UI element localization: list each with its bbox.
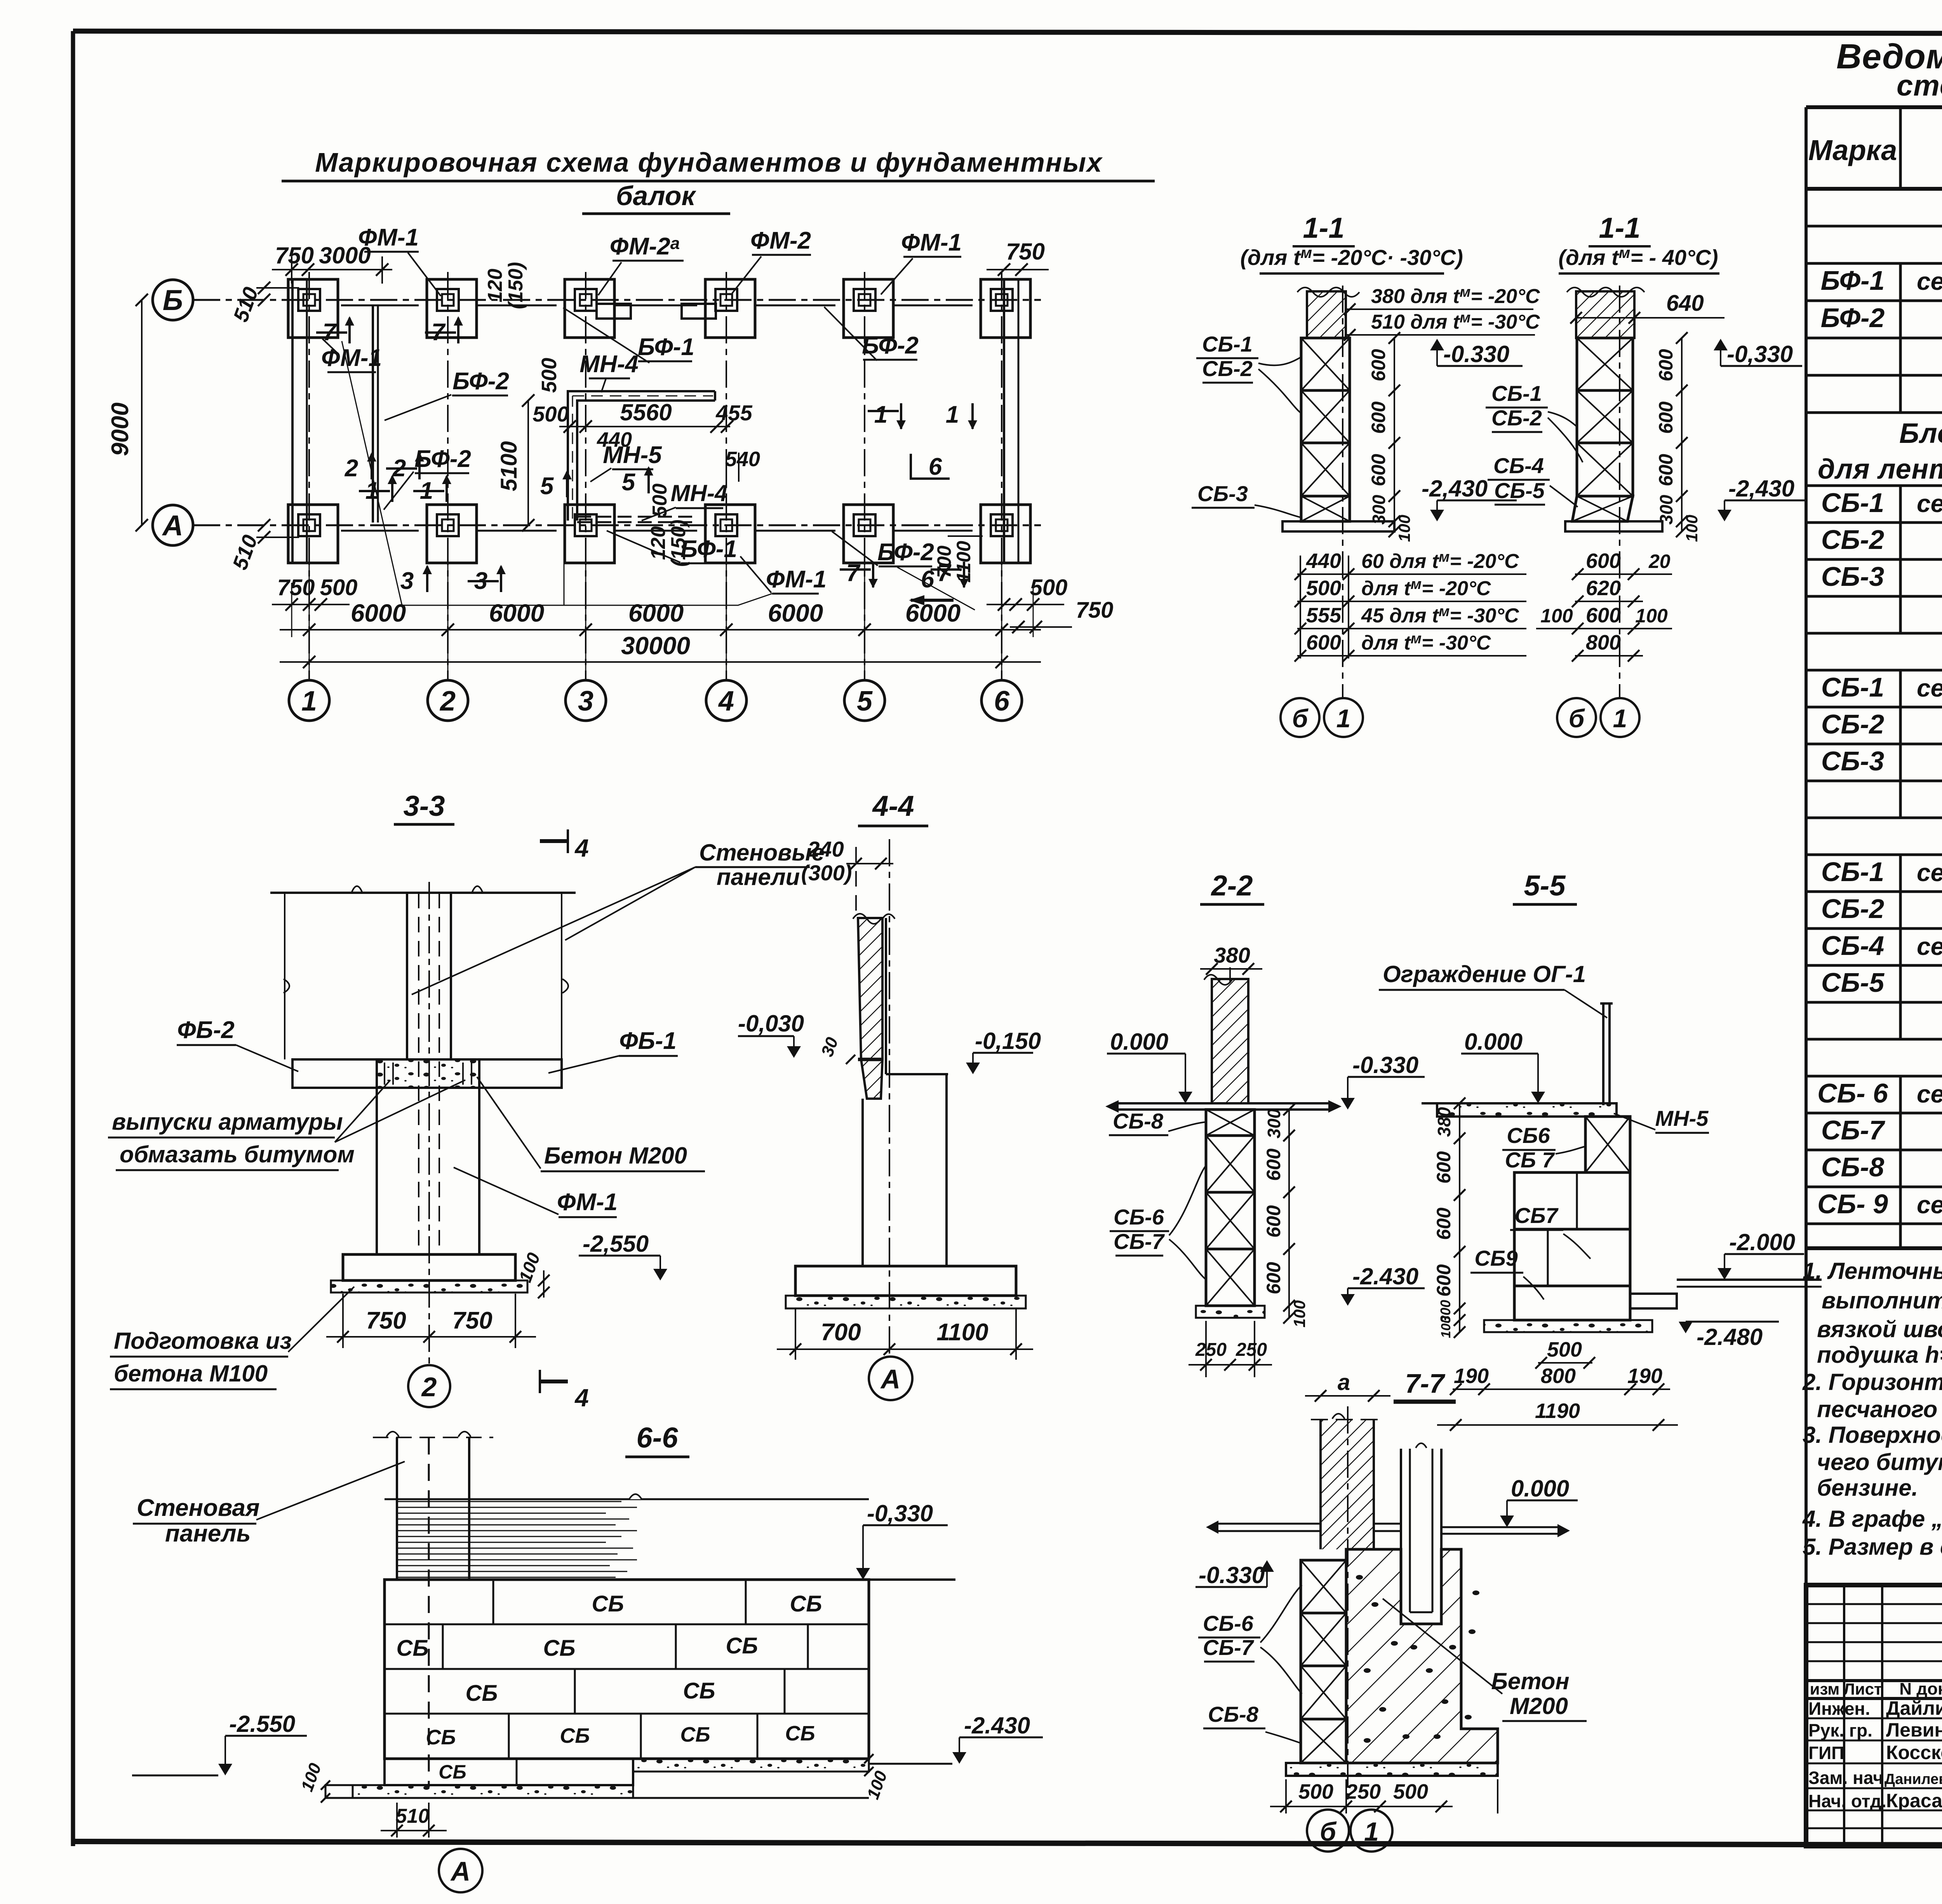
left wall xyxy=(291,279,294,563)
svg-text:серия 1 112 - 1, вып 1: серия 1 112 - 1, вып 1 xyxy=(1917,1191,1942,1219)
svg-text:Рук. гр.: Рук. гр. xyxy=(1808,1720,1872,1740)
svg-text:300: 300 xyxy=(1656,495,1676,524)
svg-text:45 для tм= -30°C: 45 для tм= -30°C xyxy=(1361,603,1519,627)
svg-text:-2.550: -2.550 xyxy=(229,1711,295,1737)
floors xyxy=(1218,1523,1321,1525)
grid bubble 2 xyxy=(428,680,468,721)
sheet frame xyxy=(71,31,75,1846)
svg-text:240: 240 xyxy=(807,837,844,861)
svg-text:500: 500 xyxy=(649,484,671,517)
right dim line xyxy=(1394,338,1395,531)
svg-text:изм: изм xyxy=(1810,1680,1840,1698)
svg-text:Данилевский: Данилевский xyxy=(1885,1771,1942,1787)
svg-text:750: 750 xyxy=(366,1307,406,1334)
svg-text:510: 510 xyxy=(396,1805,430,1827)
svg-text:250: 250 xyxy=(1345,1780,1381,1803)
svg-text:-0.330: -0.330 xyxy=(1443,341,1509,367)
svg-text:-0.330: -0.330 xyxy=(1199,1562,1265,1588)
svg-text:2: 2 xyxy=(439,686,456,717)
svg-text:30000: 30000 xyxy=(621,632,690,660)
svg-text:3-3: 3-3 xyxy=(404,790,445,822)
svg-text:600: 600 xyxy=(1433,1264,1455,1297)
СБ blocks row2 xyxy=(442,1624,444,1669)
svg-text:СБ-8: СБ-8 xyxy=(1821,1152,1884,1182)
svg-text:ГИП: ГИП xyxy=(1808,1743,1844,1763)
svg-text:СБ 7: СБ 7 xyxy=(1505,1148,1556,1172)
svg-text:7-7: 7-7 xyxy=(1405,1368,1445,1399)
level mark -2.000 xyxy=(1718,1268,1731,1280)
column axis 5 xyxy=(864,272,865,680)
svg-text:М200: М200 xyxy=(1510,1693,1568,1719)
svg-text:1. Ленточные фундаменты под: 1. Ленточные фундаменты под стены и подп… xyxy=(1803,1258,1942,1284)
svg-text:510 для tм= -30°C: 510 для tм= -30°C xyxy=(1371,310,1540,333)
svg-text:СБ-6: СБ-6 xyxy=(1203,1611,1254,1636)
dim 510 left top xyxy=(256,287,299,289)
right dim line xyxy=(1681,338,1683,531)
svg-text:СБ-6: СБ-6 xyxy=(1114,1205,1164,1229)
svg-text:a: a xyxy=(1338,1370,1350,1395)
brick wall above xyxy=(1576,291,1634,338)
svg-text:СБ-2: СБ-2 xyxy=(1821,524,1884,555)
footing ФМ row А col 5 xyxy=(844,505,893,563)
svg-text:500: 500 xyxy=(1306,577,1341,600)
svg-text:выполнить из бетонных сплошн: выполнить из бетонных сплошных блоков с … xyxy=(1822,1287,1942,1313)
svg-text:20: 20 xyxy=(1648,550,1671,572)
svg-text:800: 800 xyxy=(1586,631,1621,654)
svg-text:6: 6 xyxy=(921,566,934,593)
svg-text:СБ: СБ xyxy=(680,1723,710,1746)
footing ФМ row А col 6 xyxy=(981,505,1030,563)
channel МН-4 xyxy=(568,391,715,521)
dim 750 750 xyxy=(342,1294,344,1348)
dim row 6000 xyxy=(280,629,1041,631)
svg-text:600: 600 xyxy=(1368,401,1389,434)
wall panel xyxy=(406,893,408,1059)
svg-text:1: 1 xyxy=(874,401,887,428)
svg-text:ФМ-2а: ФМ-2а xyxy=(610,233,680,260)
svg-text:БФ-2: БФ-2 xyxy=(452,368,509,395)
svg-text:6-6: 6-6 xyxy=(637,1421,679,1454)
level mark -2,430 xyxy=(1430,510,1444,521)
svg-text:1: 1 xyxy=(1613,704,1627,733)
svg-text:СБ-7: СБ-7 xyxy=(1821,1115,1885,1145)
svg-text:серия 1.415-1 , вып 1: серия 1.415-1 , вып 1 xyxy=(1917,267,1942,295)
svg-text:СБ: СБ xyxy=(683,1678,715,1704)
svg-text:СБ-1: СБ-1 xyxy=(1202,332,1253,356)
svg-text:100: 100 xyxy=(1683,515,1701,542)
footing ФМ row Б col 2 xyxy=(427,279,477,338)
svg-text:серия 1.116 - 1, вып. 1: серия 1.116 - 1, вып. 1 xyxy=(1917,490,1942,517)
footing xyxy=(795,1266,1016,1296)
svg-text:выпуски арматуры: выпуски арматуры xyxy=(112,1109,343,1135)
svg-text:СБ: СБ xyxy=(726,1633,758,1658)
footing ФМ row А col 4 xyxy=(705,505,755,563)
svg-text:190: 190 xyxy=(1627,1364,1662,1388)
column ФМ-1 xyxy=(376,1088,378,1254)
svg-text:600: 600 xyxy=(1368,454,1389,486)
grid bubble 3 xyxy=(566,680,606,721)
svg-text:4-4: 4-4 xyxy=(872,790,914,822)
svg-text:Левина: Левина xyxy=(1886,1719,1942,1741)
speckles inside concrete xyxy=(1356,1575,1363,1580)
svg-text:б: б xyxy=(1320,1817,1337,1847)
svg-text:-0,330: -0,330 xyxy=(867,1500,933,1526)
svg-text:БФ-1: БФ-1 xyxy=(1821,265,1885,296)
svg-text:4: 4 xyxy=(718,686,734,717)
svg-text:380: 380 xyxy=(1434,1107,1454,1137)
svg-text:9000: 9000 xyxy=(107,402,134,456)
svg-text:Бетон: Бетон xyxy=(1491,1668,1569,1694)
level mark -2.480 xyxy=(1686,1321,1779,1323)
wall panel verticals xyxy=(396,1437,398,1580)
svg-text:Инжен.: Инжен. xyxy=(1808,1698,1870,1719)
svg-text:серия 1.116 - 1, вып. 1: серия 1.116 - 1, вып. 1 xyxy=(1917,1080,1942,1108)
svg-text:СБ: СБ xyxy=(426,1726,456,1749)
svg-text:СБ-8: СБ-8 xyxy=(1113,1109,1164,1133)
svg-text:500: 500 xyxy=(1393,1780,1428,1803)
footing slab xyxy=(1282,521,1394,531)
svg-text:500: 500 xyxy=(1030,575,1068,600)
bubbles б 1 xyxy=(1281,698,1319,737)
dim 100 right of footing xyxy=(543,1270,545,1298)
svg-text:песчаного раствора состава: песчаного раствора состава 1:2 толщиной … xyxy=(1817,1396,1942,1422)
footing xyxy=(343,1254,515,1280)
svg-text:СБ-2: СБ-2 xyxy=(1821,894,1884,924)
svg-text:стеновых блоков: стеновых блоков xyxy=(1897,69,1942,102)
footing ФМ row Б col 6 xyxy=(981,279,1030,338)
svg-text:(для tм= - 40°C): (для tм= - 40°C) xyxy=(1558,244,1718,270)
masonry field xyxy=(385,1580,869,1759)
svg-text:СБ-5: СБ-5 xyxy=(1821,967,1885,998)
svg-text:ФМ-1: ФМ-1 xyxy=(358,224,419,251)
footing ФМ row Б col 3 xyxy=(565,279,614,338)
svg-text:СБ-4: СБ-4 xyxy=(1821,930,1884,961)
bottom dims 500 250 500 xyxy=(1285,1779,1287,1813)
right step + ground xyxy=(1630,1294,1677,1308)
svg-text:0.000: 0.000 xyxy=(1511,1475,1569,1502)
svg-text:Подготовка из: Подготовка из xyxy=(114,1328,292,1354)
svg-text:1190: 1190 xyxy=(1535,1399,1580,1423)
block stack xyxy=(1301,1560,1346,1613)
svg-text:вязкой швов, на цементном ра: вязкой швов, на цементном растворе м-50.… xyxy=(1817,1316,1942,1342)
column axis 2 xyxy=(447,272,449,680)
right slab edge xyxy=(885,918,887,1074)
svg-text:600: 600 xyxy=(1655,454,1677,486)
divider line between drawing field and notes/table column xyxy=(1805,107,1808,1846)
level mark -0.330 xyxy=(1430,339,1444,350)
svg-text:Косско: Косско xyxy=(1886,1742,1942,1763)
brick wall above xyxy=(1307,291,1346,338)
footing ФМ row Б col 5 xyxy=(844,279,893,338)
svg-text:5100: 5100 xyxy=(496,441,522,491)
bubble А xyxy=(439,1849,482,1892)
svg-text:панели: панели xyxy=(717,864,800,890)
svg-text:6: 6 xyxy=(929,453,942,480)
svg-text:500: 500 xyxy=(1298,1780,1333,1803)
svg-text:СБ6: СБ6 xyxy=(1507,1123,1550,1148)
svg-text:6000: 6000 xyxy=(351,599,406,627)
svg-text:1: 1 xyxy=(1364,1817,1379,1847)
svg-text:СБ9: СБ9 xyxy=(1474,1246,1517,1270)
svg-text:серия 1 116 - 1, вып. 1: серия 1 116 - 1, вып. 1 xyxy=(1917,674,1942,702)
level mark -0,150 xyxy=(966,1063,980,1074)
svg-text:30: 30 xyxy=(818,1035,842,1059)
svg-text:510: 510 xyxy=(228,532,262,573)
svg-text:N докум.: N докум. xyxy=(1899,1679,1942,1698)
svg-text:540: 540 xyxy=(725,448,760,471)
svg-text:250: 250 xyxy=(1236,1340,1267,1360)
dim 750 top-right xyxy=(987,269,1049,270)
svg-text:2-2: 2-2 xyxy=(1211,869,1253,902)
svg-text:300: 300 xyxy=(1264,1108,1284,1138)
svg-text:СБ: СБ xyxy=(790,1591,822,1617)
svg-text:серия 1.116 - 1 , вып. 1: серия 1.116 - 1 , вып. 1 xyxy=(1917,859,1942,887)
block stack xyxy=(1301,338,1350,390)
level mark -2,430 xyxy=(1718,510,1731,521)
svg-text:СБ- 9: СБ- 9 xyxy=(1817,1189,1888,1219)
side squiggles xyxy=(284,979,568,993)
svg-text:чего битума по огрунтовке: чего битума по огрунтовке из битума, рас… xyxy=(1817,1449,1942,1475)
СБ blocks row3 xyxy=(574,1669,576,1714)
svg-text:-2,430: -2,430 xyxy=(1728,476,1794,502)
svg-text:5. Размер в скобках дан д: 5. Размер в скобках дан для t = -30°C , … xyxy=(1803,1534,1942,1560)
svg-text:6000: 6000 xyxy=(905,599,961,627)
svg-text:МН-5: МН-5 xyxy=(603,442,662,469)
footing ФМ row Б col 1 xyxy=(288,279,338,338)
svg-text:б: б xyxy=(1292,704,1309,733)
svg-text:5: 5 xyxy=(857,686,873,717)
svg-text:Маркировочная схема фундамен: Маркировочная схема фундаментов и фундам… xyxy=(315,147,1103,178)
level mark 0.000 xyxy=(1178,1092,1192,1103)
top lines of masonry xyxy=(385,1498,869,1500)
axis А xyxy=(193,524,1041,526)
СБ blocks row4 xyxy=(508,1714,510,1759)
svg-text:для ленточных фундаментов:: для ленточных фундаментов: xyxy=(1818,454,1942,485)
svg-text:-2,550: -2,550 xyxy=(583,1231,649,1257)
svg-text:ФМ-1: ФМ-1 xyxy=(557,1189,618,1216)
svg-text:балок: балок xyxy=(616,181,697,211)
grid bubble 5 xyxy=(844,680,885,721)
svg-text:600: 600 xyxy=(1586,549,1621,573)
svg-text:750: 750 xyxy=(275,242,314,268)
svg-text:ФМ-2: ФМ-2 xyxy=(750,227,811,254)
svg-text:Красавин: Красавин xyxy=(1886,1790,1942,1812)
svg-text:620: 620 xyxy=(1586,577,1621,600)
footing ФМ row А col 3 xyxy=(565,505,614,563)
svg-text:ФБ-1: ФБ-1 xyxy=(619,1028,676,1054)
svg-text:СБ7: СБ7 xyxy=(1514,1203,1559,1228)
masonry wall stepped xyxy=(1585,1117,1630,1172)
level mark 0.000 xyxy=(1500,1516,1514,1527)
floor line xyxy=(270,892,576,894)
svg-text:0.000: 0.000 xyxy=(1464,1029,1523,1055)
svg-text:3. Поверхности фундаментов о: 3. Поверхности фундаментов обмазать двум… xyxy=(1803,1422,1942,1448)
bubbles б 1 xyxy=(1307,1810,1349,1852)
dim 100 left xyxy=(321,1780,330,1790)
svg-text:БФ-2: БФ-2 xyxy=(414,446,471,472)
svg-text:-0,330: -0,330 xyxy=(1727,341,1793,367)
svg-text:700: 700 xyxy=(821,1319,861,1346)
svg-text:100: 100 xyxy=(1540,605,1573,627)
footing slab xyxy=(1286,1763,1498,1776)
svg-text:5: 5 xyxy=(622,469,636,496)
svg-text:СБ-3: СБ-3 xyxy=(1197,481,1248,506)
svg-text:СБ- 6: СБ- 6 xyxy=(1817,1078,1888,1108)
svg-text:6000: 6000 xyxy=(628,599,684,627)
svg-text:ФБ-2: ФБ-2 xyxy=(177,1017,234,1043)
axis circle Б xyxy=(153,280,193,320)
svg-text:100: 100 xyxy=(1395,515,1413,542)
svg-text:555: 555 xyxy=(1306,604,1342,627)
svg-text:600: 600 xyxy=(1263,1262,1284,1294)
svg-text:СБ: СБ xyxy=(560,1724,590,1747)
svg-text:МН-4: МН-4 xyxy=(671,480,728,506)
svg-text:300: 300 xyxy=(1369,495,1389,524)
right wall xyxy=(1003,279,1005,563)
trough xyxy=(1400,1449,1402,1624)
svg-text:3: 3 xyxy=(400,568,414,594)
svg-text:СБ-2: СБ-2 xyxy=(1202,356,1253,381)
svg-text:Дайлида: Дайлида xyxy=(1886,1697,1942,1719)
svg-text:640: 640 xyxy=(1666,291,1704,316)
svg-text:1-1: 1-1 xyxy=(1599,212,1641,244)
svg-text:(для tм= -20°C· -30°C): (для tм= -20°C· -30°C) xyxy=(1240,244,1463,270)
svg-text:МН-4: МН-4 xyxy=(579,351,639,378)
dim 750 top-left xyxy=(272,269,392,270)
svg-text:4. В графе „ примечание” ука: 4. В графе „ примечание” указана масса э… xyxy=(1802,1506,1942,1532)
svg-text:МН-5: МН-5 xyxy=(1655,1106,1709,1131)
svg-text:для tм= -20°C: для tм= -20°C xyxy=(1361,576,1491,600)
svg-text:190: 190 xyxy=(1454,1364,1489,1388)
wall brick xyxy=(1212,979,1248,1103)
svg-text:5-5: 5-5 xyxy=(1524,869,1566,902)
leader lines bottom xyxy=(402,594,772,605)
footing ФМ row А col 2 xyxy=(427,505,477,563)
svg-text:БФ-1: БФ-1 xyxy=(638,334,694,361)
beam band ФБ-2 left / ФБ-1 right xyxy=(292,1059,377,1088)
svg-text:100: 100 xyxy=(515,1250,544,1285)
grid bubble 4 xyxy=(706,680,747,721)
svg-text:1: 1 xyxy=(301,686,317,717)
svg-text:ФМ-1: ФМ-1 xyxy=(901,229,962,256)
svg-text:600: 600 xyxy=(1368,349,1389,381)
section mark 4 top xyxy=(540,839,568,843)
svg-text:380: 380 xyxy=(1214,943,1250,967)
svg-text:750: 750 xyxy=(1076,598,1114,623)
svg-text:2: 2 xyxy=(421,1372,437,1402)
wall column below xyxy=(861,1099,864,1266)
svg-text:Нач. отд.: Нач. отд. xyxy=(1808,1791,1886,1811)
svg-text:СБ: СБ xyxy=(397,1636,429,1661)
partition wall БФ-2 at 3000 xyxy=(372,305,374,523)
svg-text:б: б xyxy=(1569,704,1585,733)
svg-text:(150): (150) xyxy=(505,262,527,309)
svg-text:Лист: Лист xyxy=(1843,1680,1882,1698)
svg-text:3: 3 xyxy=(578,686,593,717)
footing ФМ row А col 1 xyxy=(288,505,338,563)
svg-text:120: 120 xyxy=(484,269,506,303)
svg-text:5: 5 xyxy=(540,473,554,500)
axis Б xyxy=(193,299,1041,301)
svg-text:120: 120 xyxy=(647,526,670,560)
svg-text:БФ-2: БФ-2 xyxy=(1821,303,1885,333)
channel МН-4 lower run xyxy=(577,516,697,518)
dim 100 right xyxy=(864,1754,874,1763)
svg-text:4: 4 xyxy=(574,1384,589,1412)
svg-text:100: 100 xyxy=(1635,605,1668,627)
dim 9000 left xyxy=(141,300,143,525)
footing ФМ row Б col 4 xyxy=(705,279,755,338)
column axis 3 xyxy=(585,272,586,680)
concrete body xyxy=(1346,1549,1498,1763)
svg-text:СБ-3: СБ-3 xyxy=(1821,561,1884,592)
svg-text:6000: 6000 xyxy=(489,599,544,627)
dim 510 left bottom xyxy=(256,537,299,538)
svg-text:СБ-4: СБ-4 xyxy=(1493,453,1544,478)
svg-text:Бетон М200: Бетон М200 xyxy=(544,1143,687,1169)
svg-text:СБ-1: СБ-1 xyxy=(1491,381,1542,406)
svg-text:510: 510 xyxy=(229,284,263,325)
svg-text:Б: Б xyxy=(163,284,183,316)
svg-text:СБ-7: СБ-7 xyxy=(1203,1635,1255,1660)
svg-text:подушка h= 100мм.: подушка h= 100мм. xyxy=(1817,1342,1942,1368)
svg-text:БФ-2: БФ-2 xyxy=(877,539,934,566)
svg-text:380 для tм= -20°C: 380 для tм= -20°C xyxy=(1371,284,1540,308)
svg-text:СБ-1: СБ-1 xyxy=(1821,857,1884,887)
svg-text:750: 750 xyxy=(452,1307,492,1334)
column axis 4 xyxy=(726,272,727,680)
svg-text:500: 500 xyxy=(320,575,358,600)
svg-text:2: 2 xyxy=(345,455,358,482)
bubble А xyxy=(869,1357,912,1400)
svg-text:4: 4 xyxy=(574,834,589,862)
svg-text:Блоки бетонные для стен по: Блоки бетонные для стен подвалов и плиты xyxy=(1899,418,1942,449)
svg-text:-2.000: -2.000 xyxy=(1729,1229,1795,1255)
svg-text:А: А xyxy=(450,1856,471,1887)
axis circle А xyxy=(153,505,193,545)
floor slab МН-5 xyxy=(1437,1103,1617,1117)
svg-text:2. Горизонтальная гидроизол: 2. Горизонтальная гидроизоляция на отм -… xyxy=(1802,1369,1942,1395)
svg-text:обмазать битумом: обмазать битумом xyxy=(120,1141,355,1167)
svg-text:1100: 1100 xyxy=(936,1319,988,1346)
svg-text:500: 500 xyxy=(538,358,561,393)
panel hatch (horizontal lines) xyxy=(398,1501,621,1502)
dim row 30000 xyxy=(280,661,1041,663)
svg-text:100: 100 xyxy=(1290,1300,1309,1327)
level mark -0.330 xyxy=(1341,1098,1355,1110)
svg-text:600: 600 xyxy=(1433,1207,1455,1240)
dim 30 xyxy=(846,1055,855,1064)
level mark -0.330 xyxy=(1260,1560,1274,1572)
svg-text:панель: панель xyxy=(165,1520,251,1547)
svg-text:250: 250 xyxy=(1195,1340,1227,1360)
dim 510 xyxy=(396,1803,398,1838)
svg-text:600: 600 xyxy=(1586,604,1621,627)
level mark 0.000 xyxy=(1531,1092,1545,1103)
foundation beams row А xyxy=(341,530,419,532)
svg-text:60 для tм= -20°C: 60 для tм= -20°C xyxy=(1361,549,1519,573)
svg-text:Марка: Марка xyxy=(1808,134,1897,166)
svg-text:Зам. нач.: Зам. нач. xyxy=(1808,1768,1888,1788)
svg-text:600: 600 xyxy=(1263,1148,1284,1181)
svg-text:500: 500 xyxy=(1547,1338,1582,1361)
footing slab xyxy=(1484,1320,1652,1332)
block stack xyxy=(1577,338,1633,390)
level mark -2.430 xyxy=(952,1752,966,1764)
svg-text:-2.430: -2.430 xyxy=(964,1712,1030,1739)
svg-text:440: 440 xyxy=(1306,549,1341,573)
svg-text:СБ: СБ xyxy=(785,1722,815,1745)
